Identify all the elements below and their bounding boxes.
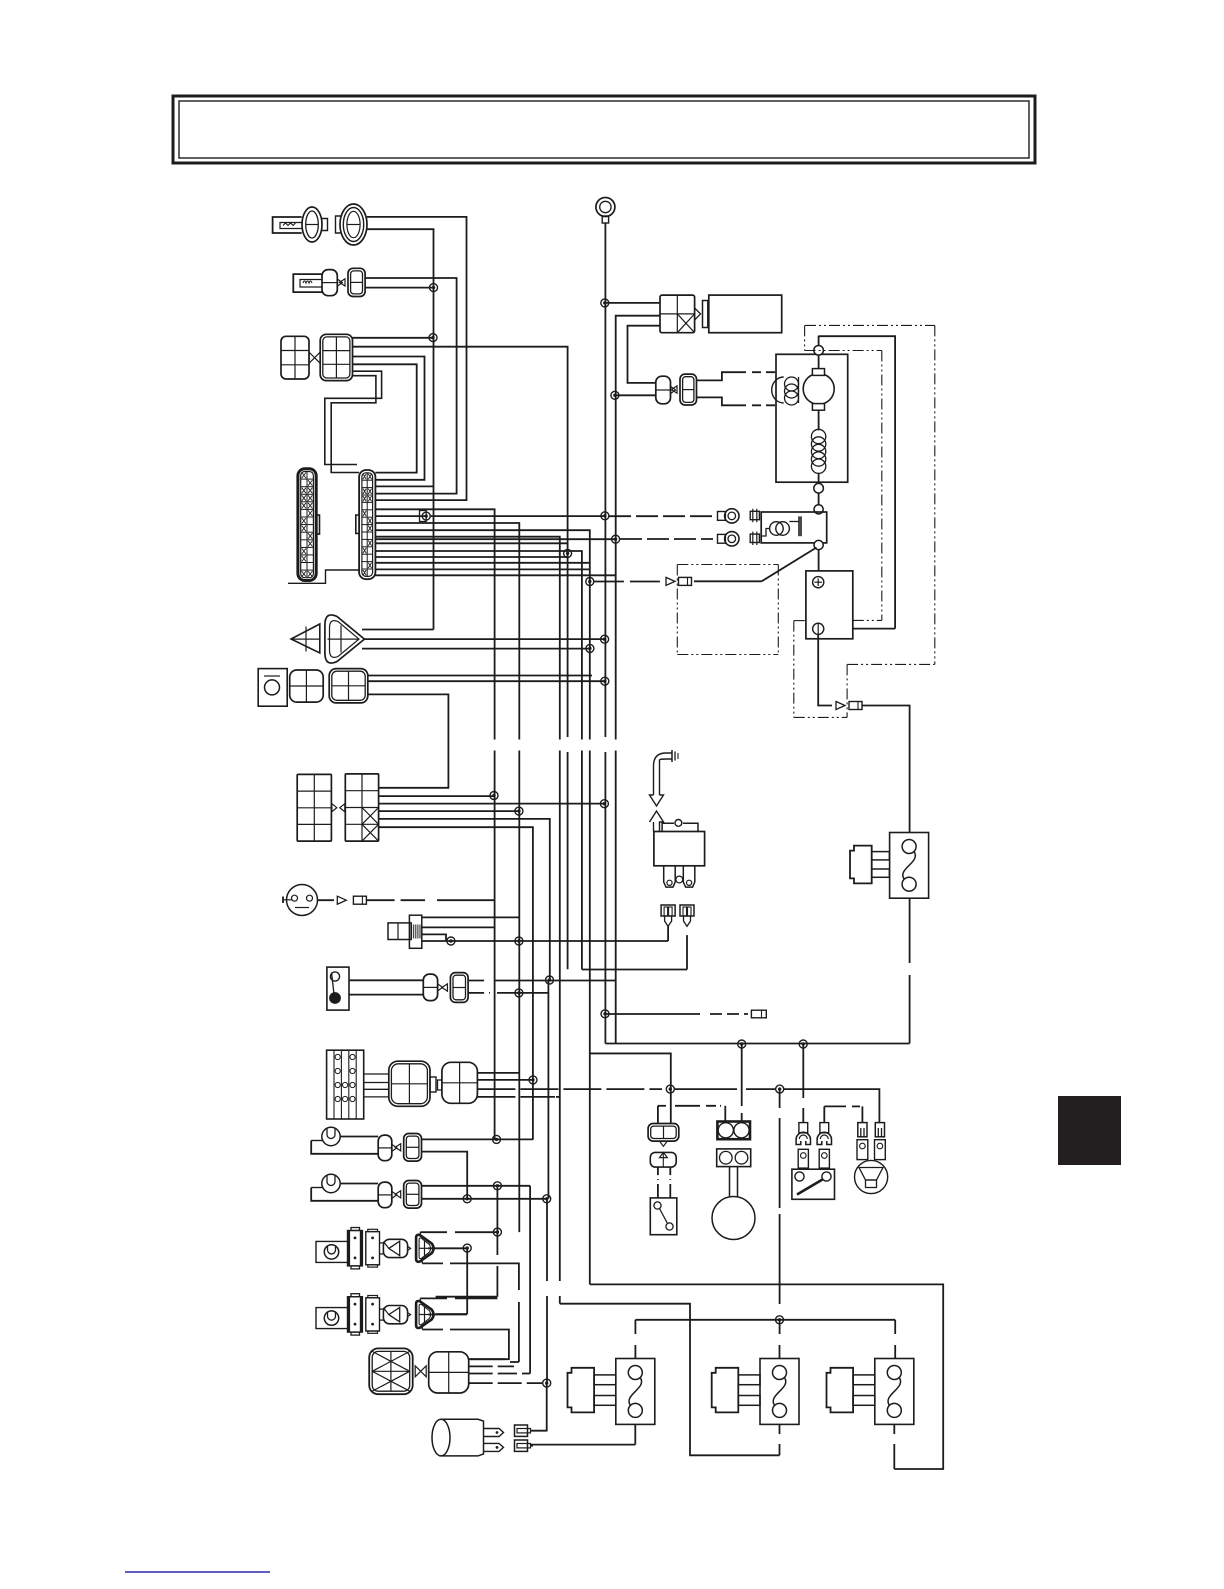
starter motor bbox=[803, 373, 834, 404]
mating plugs bbox=[515, 1425, 528, 1436]
fuse3 bottom loop bbox=[893, 1424, 895, 1434]
motor feed from top bbox=[818, 336, 820, 346]
throttle sensor bbox=[388, 923, 411, 940]
relay terminal bolts bbox=[750, 511, 759, 519]
ring terminal (frame ground) bbox=[596, 198, 615, 217]
wires to starter motor assembly bbox=[697, 372, 747, 380]
below-motor junction circles bbox=[818, 482, 820, 483]
wire-harness strip connector (right half) bbox=[359, 470, 375, 579]
handlebar switch connector pair bbox=[389, 1061, 430, 1106]
bulb1 output wires bbox=[422, 1138, 533, 1140]
pickup coil unit bbox=[287, 885, 318, 916]
thermo sensor unit (top-left) bbox=[273, 217, 302, 233]
battery box bbox=[806, 571, 853, 639]
V567 bus bbox=[567, 553, 569, 737]
front brake switch bbox=[327, 967, 349, 1010]
horn spade terminals bbox=[858, 1123, 867, 1137]
8-pin connector pair bbox=[297, 774, 331, 841]
strip bottom-left jog wire bbox=[288, 570, 359, 583]
8p wires bbox=[379, 795, 494, 797]
fuse1 bottom loop bbox=[634, 1424, 636, 1444]
armature coil bbox=[811, 429, 825, 443]
neutral switch terminals bbox=[802, 1044, 804, 1098]
continuation arrows (harness link) bbox=[654, 753, 673, 795]
field coil bbox=[772, 377, 784, 403]
fuse2 bottom loop bbox=[779, 1424, 781, 1434]
ground bus V605 bbox=[604, 223, 606, 737]
pickup wire w/ bullet bbox=[318, 899, 335, 901]
bullet stub wire y=1014 bbox=[605, 1013, 700, 1015]
relay prongs bbox=[664, 866, 676, 887]
fuse feed rail y=1319.8 bbox=[635, 1319, 895, 1321]
CDI unit connector bbox=[660, 295, 695, 333]
starter relay coil connector pair bbox=[656, 376, 671, 404]
headlight2 wires bbox=[420, 1297, 447, 1299]
triangle connector wires bbox=[362, 629, 434, 631]
sensor oval connector bbox=[302, 207, 322, 242]
accessory fuse 2 bbox=[760, 1359, 799, 1425]
meter bulb 1 bbox=[322, 1127, 340, 1145]
spade lugs bbox=[484, 1429, 504, 1437]
oil level sensor bbox=[258, 669, 287, 707]
taillight leads down to switch bbox=[657, 1167, 659, 1180]
footer blue line bbox=[125, 1571, 270, 1573]
meter bulb 2 bbox=[322, 1174, 340, 1192]
taillight connector bbox=[648, 1124, 679, 1142]
brake switch leads bbox=[349, 979, 423, 981]
battery + terminal bbox=[813, 577, 824, 588]
up arrow into relay bbox=[650, 811, 664, 832]
wire: heater top bbox=[365, 278, 457, 494]
starter motor box bbox=[776, 354, 848, 482]
link plug bbox=[671, 750, 673, 762]
rectifier/regulator cylinder bbox=[432, 1419, 450, 1456]
handlebar connector wires bbox=[477, 1072, 519, 1074]
taillight feed y=1053.4 bbox=[590, 1053, 671, 1123]
handlebar switch assembly bbox=[327, 1050, 364, 1119]
relay spade stub wires bbox=[667, 926, 669, 941]
CDI wires bbox=[605, 302, 660, 304]
indicator lamp block bbox=[717, 1122, 750, 1140]
chassis dash-dot frame (starter area) bbox=[805, 324, 935, 326]
speedo bulb body bbox=[729, 1167, 731, 1197]
CDI unit box bbox=[709, 295, 782, 333]
ground collector wire y=1043.5 bbox=[605, 1043, 909, 1045]
6p wires bbox=[353, 337, 434, 339]
taillight feed wires bbox=[657, 1106, 659, 1124]
magneto wires bbox=[469, 1358, 505, 1360]
oil sensor wires bbox=[368, 675, 592, 677]
bulb2 output wires bbox=[422, 1185, 530, 1187]
mating oval connector bbox=[340, 204, 367, 245]
triangular connector pair bbox=[291, 624, 320, 653]
junction heater/sensor bus bbox=[430, 284, 438, 292]
carb heater connector pair bbox=[322, 270, 337, 296]
feeds bbox=[741, 1044, 743, 1101]
accessory fuse 1 bbox=[616, 1359, 655, 1425]
lighting feed y=1089.1 bbox=[666, 1085, 674, 1093]
neutral switch box bbox=[792, 1169, 835, 1199]
flasher wires bbox=[531, 1430, 547, 1433]
V530/V497/V467 drops bbox=[529, 1186, 531, 1374]
dash-dot frame (battery lead area) bbox=[677, 564, 778, 566]
battery - terminal bbox=[813, 623, 824, 634]
starter cut-off relay bbox=[654, 832, 705, 866]
motor ground path to battery bbox=[853, 628, 895, 630]
tps wires bbox=[422, 916, 519, 918]
big feed loop (left) bbox=[590, 1052, 671, 1054]
wire: heater bottom bbox=[365, 287, 433, 289]
main switch 6-pin connector pair bbox=[281, 336, 309, 379]
headlight assembly bbox=[316, 1308, 348, 1329]
title box (empty double frame) bbox=[173, 96, 1035, 163]
relay top/bottom posts bbox=[814, 540, 823, 549]
V590 junction dots bbox=[586, 644, 594, 652]
battery negative lead bbox=[818, 634, 832, 705]
relay output diagonal to battery feed wire bbox=[762, 548, 817, 582]
wire-harness strip connector (left half) bbox=[298, 469, 316, 581]
wire: sensor to vertical buses bbox=[367, 217, 467, 500]
V494 / V519 / V533 / V548 dots bbox=[490, 792, 498, 800]
rear brake switch bbox=[650, 1198, 677, 1235]
horn bbox=[855, 1160, 888, 1193]
ring terminal lugs to relay bbox=[725, 509, 739, 523]
main fuse bbox=[890, 833, 929, 899]
accessory fuse 3 bbox=[875, 1359, 914, 1425]
harness page-break gap bbox=[488, 740, 622, 751]
oil sensor connector pair bbox=[290, 670, 324, 702]
strip output wires bbox=[375, 485, 433, 487]
vertical feeders (lighting circuits) bbox=[547, 980, 549, 1199]
AC magneto connector (x-box) bbox=[369, 1348, 413, 1394]
starter relay box bbox=[761, 512, 827, 543]
carb heater unit bbox=[293, 274, 322, 292]
page tab black square bbox=[1058, 1096, 1121, 1165]
headlight1 wires bbox=[420, 1231, 447, 1233]
relay spade terminals bbox=[661, 905, 675, 916]
headlight assembly bbox=[316, 1241, 348, 1262]
